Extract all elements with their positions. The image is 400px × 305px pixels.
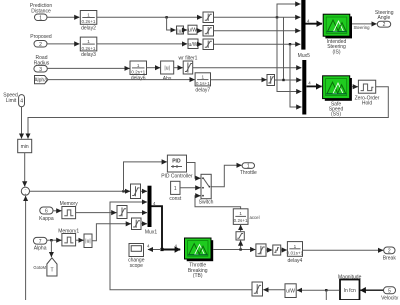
svg-text:0.2s+1: 0.2s+1 <box>82 46 96 51</box>
wire delay2 to limiter f1 with junction <box>97 16 202 18</box>
svg-text:4: 4 <box>147 244 150 249</box>
wire delay7 to limiter f4 <box>211 79 267 81</box>
svg-text:PID Controller: PID Controller <box>161 174 193 180</box>
wire riser x290 tap down to Mux6 in4 <box>290 44 301 107</box>
junction limiter f4 wire <box>282 79 284 81</box>
svg-text:delay4: delay4 <box>288 258 303 264</box>
svg-text:Break: Break <box>383 255 397 261</box>
wire saturation2 to Mux1 in3 <box>127 212 147 214</box>
svg-text:Velocity: Velocity <box>381 296 399 301</box>
block const <box>169 181 182 202</box>
wire PID to Switch in1 <box>187 163 201 179</box>
block accel transfer fcn <box>233 209 259 225</box>
junction on Alpha wire <box>50 239 52 241</box>
svg-text:2: 2 <box>39 42 42 48</box>
wire Velocity to Magnitude <box>360 289 383 291</box>
svg-text:(IS): (IS) <box>332 49 340 55</box>
junction limiter f3 wire <box>289 43 291 45</box>
outport 1 Throttle <box>240 163 257 176</box>
wire branch up to PID Controller <box>124 162 167 191</box>
wire limiter f4 to Mux6 in2 <box>275 79 302 81</box>
svg-text:GotoM: GotoM <box>33 265 46 270</box>
block Abs <box>161 61 174 82</box>
wire Mux5 out to IS (vector 4) <box>306 23 323 25</box>
block saturation1 <box>131 184 141 199</box>
wire Mux1 out vector <box>152 206 181 249</box>
block PID Controller <box>161 155 193 180</box>
wire const to Switch in2 <box>180 187 200 189</box>
junction at scope tap <box>160 248 163 251</box>
block Zero-Order Hold <box>355 80 380 106</box>
wire velocity feedback from bottom edge into sum <box>25 196 27 300</box>
svg-text:Mux1: Mux1 <box>145 230 157 236</box>
block saturation2 <box>117 206 127 219</box>
block limiter f1 <box>203 12 214 23</box>
block uWc <box>285 284 296 298</box>
block quantizer <box>273 245 281 255</box>
svg-text:3: 3 <box>39 67 42 73</box>
wire Abs to wr filter1 <box>174 67 183 69</box>
wire saturationB to quantizer <box>266 249 272 251</box>
block wr filter1 <box>179 55 198 74</box>
wire ZOH return loop to min <box>28 87 388 139</box>
block saturation3 <box>132 218 142 230</box>
wire wr filter1 to Mux6 in1 <box>193 67 302 69</box>
block delay6 (transfer fcn 1/0.2s+1) <box>130 61 147 82</box>
mux Mux5 <box>298 0 310 59</box>
svg-text:+: + <box>24 192 26 196</box>
svg-text:const: const <box>169 196 182 202</box>
block u/W a <box>188 25 197 34</box>
svg-text:0.2s+1: 0.2s+1 <box>131 69 145 74</box>
wire SS to Zero-Order Hold <box>352 86 358 88</box>
svg-text:5: 5 <box>388 289 391 295</box>
block saturationD <box>252 282 263 296</box>
junction limiter f1 wire <box>276 16 278 18</box>
svg-text:|u|: |u| <box>177 28 182 34</box>
svg-text:Switch: Switch <box>199 199 214 205</box>
outport 2 Break <box>383 247 397 261</box>
wire saturation1 to Mux1 in1 <box>141 190 148 192</box>
svg-text:1: 1 <box>294 244 297 249</box>
block limiter f4 <box>267 75 275 86</box>
svg-text:delay3: delay3 <box>81 52 96 58</box>
svg-text:0.2s+1: 0.2s+1 <box>82 19 96 24</box>
wire branch down to Goto tag <box>50 240 52 257</box>
wire Kappa to Memory <box>53 210 61 212</box>
wire Magnitude out to uWc <box>297 289 340 291</box>
svg-text:u/W: u/W <box>189 42 198 48</box>
svg-text:PID: PID <box>172 159 181 165</box>
block Switch <box>199 174 214 205</box>
wire inport4 down to min <box>21 107 23 139</box>
wire abs2 riser to saturation3 <box>92 224 131 241</box>
wire delay6 to Abs <box>147 67 161 69</box>
wire Switch out to Throttle outport <box>211 165 241 186</box>
svg-text:2: 2 <box>383 22 386 28</box>
svg-text:delay6: delay6 <box>131 76 146 82</box>
wire riser x283.5 crossing <box>283 17 285 80</box>
wire branch down to bottom edge <box>325 290 327 300</box>
wire branch down to abs small <box>167 17 176 30</box>
svg-text:Alpha: Alpha <box>34 246 47 252</box>
fuzzy block Safe Speed (SS) <box>323 76 352 118</box>
svg-text:(SS): (SS) <box>331 112 341 118</box>
wire From Alpha to delay7 <box>48 79 195 81</box>
fuzzy block Throttle Breaking (TB) <box>185 238 214 279</box>
svg-text:2: 2 <box>388 249 391 255</box>
svg-text:1: 1 <box>239 211 242 216</box>
wire IS to Steering Angle outport <box>352 23 377 25</box>
block abs small (row2) <box>177 26 184 34</box>
wire tap to change scope <box>148 249 160 251</box>
svg-text:4: 4 <box>20 98 23 104</box>
wire u/W b to limiter f3 <box>198 43 202 45</box>
svg-text:1: 1 <box>87 39 90 44</box>
svg-text:Mux5: Mux5 <box>298 53 310 59</box>
svg-text:1: 1 <box>137 63 140 68</box>
wire abs small to u/W a <box>184 29 188 31</box>
svg-text:4: 4 <box>307 18 310 23</box>
svg-text:4: 4 <box>175 244 178 249</box>
wire big feedback into Mux1 in2 <box>110 202 252 290</box>
block saturationB <box>256 244 266 256</box>
wire uWc to saturationD <box>263 289 284 291</box>
wire accel feedback to Switch in3 <box>195 196 241 209</box>
svg-text:delay7: delay7 <box>195 88 210 94</box>
svg-text:|u|: |u| <box>164 66 169 72</box>
wire min to sum <box>24 153 26 187</box>
wire inport3 to delay6 <box>47 67 129 69</box>
block limiter f2 <box>203 26 214 37</box>
fuzzy block Intended Steering (IS) <box>323 14 352 55</box>
wire quantizer to delay4 <box>281 249 287 251</box>
wire saturationA to accel tf <box>240 225 242 232</box>
mux Mux6 <box>302 60 306 115</box>
svg-text:7: 7 <box>39 239 42 245</box>
block delay3 (transfer fcn 1/0.2s+1) <box>80 37 97 58</box>
svg-text:(TB): (TB) <box>193 273 203 279</box>
junction on magnitude wire <box>325 289 327 291</box>
svg-text:4: 4 <box>153 201 156 206</box>
svg-text:accel: accel <box>250 215 260 220</box>
svg-text:6: 6 <box>45 209 48 215</box>
svg-text:Kappa: Kappa <box>39 216 54 222</box>
svg-text:u/W: u/W <box>286 289 295 295</box>
inport 4 Speed Limit <box>3 93 24 107</box>
svg-text:Steering: Steering <box>354 25 371 30</box>
block delay4 (transfer fcn 1/0.01s+1) <box>287 242 304 264</box>
wire limiter f3 to Mux5 in4 <box>214 43 301 45</box>
inport 2 Proposed <box>30 34 52 48</box>
wire sum out to saturation1 <box>30 190 131 192</box>
svg-text:scope: scope <box>130 263 144 269</box>
wire Memory to saturation2 <box>76 212 117 214</box>
inport 3 Road Radius <box>34 55 50 73</box>
svg-text:u/W: u/W <box>188 28 197 34</box>
block u/W b <box>188 39 198 49</box>
svg-text:−: − <box>24 188 26 192</box>
block change scope <box>128 244 145 269</box>
wire riser x277 tap up to Mux5 in1 <box>277 4 300 17</box>
svg-text:4: 4 <box>308 80 311 85</box>
From tag Alpha <box>34 76 48 84</box>
wire delay4 to Break outport <box>303 249 384 251</box>
wire Mux6 out to Safe Speed (vector 4) <box>307 85 322 87</box>
junction to PID branch <box>122 190 124 192</box>
wire TB out to saturationB <box>213 249 255 251</box>
svg-text:1: 1 <box>174 186 177 192</box>
svg-text:1: 1 <box>247 163 250 169</box>
block abs2 <box>84 234 92 248</box>
svg-text:In fcn: In fcn <box>344 288 356 294</box>
svg-text:Abs: Abs <box>163 76 172 82</box>
wire limiter f1 to Mux5 in2 <box>214 16 301 18</box>
svg-text:Proposed: Proposed <box>30 34 52 40</box>
wire Alpha to Memory1 with junction <box>47 239 62 241</box>
outport Steering Angle <box>375 10 394 28</box>
block Memory <box>60 201 79 219</box>
goto tag T <box>33 258 57 276</box>
svg-text:Alpha: Alpha <box>34 77 47 83</box>
wire branch up to saturationA <box>240 241 242 250</box>
svg-text:1: 1 <box>202 75 205 80</box>
junction on delay2 wire <box>165 16 167 18</box>
block limiter f3 <box>203 39 214 50</box>
svg-text:delay2: delay2 <box>81 25 96 31</box>
wire inport2 to delay3 <box>47 43 79 45</box>
junction on TB wire <box>239 248 241 250</box>
block min <box>18 139 32 152</box>
inport 5 Velocity <box>381 287 399 302</box>
svg-text:Throttle: Throttle <box>240 170 257 176</box>
inport 1 Prediction Distance <box>30 3 52 21</box>
wire u/W a to limiter f2 <box>197 30 202 32</box>
mux Mux1 <box>145 186 157 236</box>
wire riser x277 tap down to Mux6 in3 <box>277 17 301 91</box>
subsystem Magnitude <box>338 274 362 300</box>
block delay2 (transfer fcn 1/0.2s+1) <box>80 11 97 32</box>
wire Memory1 to abs2 <box>76 239 84 241</box>
wire saturation3 to Mux1 in4 <box>141 223 147 225</box>
inport 6 Kappa <box>39 207 54 222</box>
svg-text:Limit: Limit <box>6 98 17 104</box>
svg-text:|u|: |u| <box>85 239 90 245</box>
svg-text:Hold: Hold <box>362 101 373 107</box>
inport 7 Alpha <box>33 237 47 251</box>
svg-text:0.2s+1: 0.2s+1 <box>234 218 248 223</box>
wire inport1 to delay2 <box>47 16 79 18</box>
block delay7 (transfer fcn 1/0.1s+1) <box>195 73 210 94</box>
svg-text:0.01s+1: 0.01s+1 <box>287 250 304 255</box>
block Memory1 <box>58 229 79 246</box>
svg-text:Angle: Angle <box>378 15 391 21</box>
svg-text:0.1s+1: 0.1s+1 <box>196 81 210 86</box>
svg-text:min: min <box>21 144 29 150</box>
wire delay3 to u/W b <box>97 43 187 45</box>
sum block <box>21 187 29 196</box>
block saturationA <box>236 232 244 240</box>
svg-text:1: 1 <box>39 15 42 21</box>
svg-text:T: T <box>50 268 53 274</box>
wire limiter f2 to Mux5 in3 <box>214 30 301 32</box>
svg-text:1: 1 <box>87 13 90 18</box>
